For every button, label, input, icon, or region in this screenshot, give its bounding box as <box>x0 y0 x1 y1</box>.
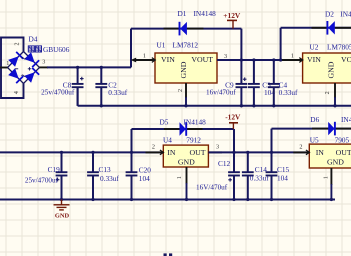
capacitor C15 <box>266 152 278 199</box>
label C15 <box>277 165 290 174</box>
svg-text:104: 104 <box>139 174 150 183</box>
svg-text:U5: U5 <box>310 135 319 144</box>
power +12V symbol <box>227 20 237 28</box>
diode D6 pins <box>312 128 351 130</box>
svg-text:LM7805: LM7805 <box>327 42 351 51</box>
junction U1 VIN tap <box>0 0 1 1</box>
svg-text:2: 2 <box>299 144 302 151</box>
regulator U4 7912 body <box>163 145 208 167</box>
U4 pin 2 number <box>152 144 155 151</box>
wire top-section ground rail <box>78 87 351 106</box>
label D4 <box>29 35 38 44</box>
pin number 2 of bridge <box>13 42 20 45</box>
bridge AC mark top <box>22 58 26 59</box>
capacitor C14 <box>242 152 254 199</box>
U4 pin 3 number <box>216 144 219 151</box>
wire ground rail <box>0 199 335 201</box>
junction ground rail C19 <box>60 198 63 201</box>
U2 GND pin name <box>327 61 336 78</box>
label C3 <box>262 81 271 90</box>
diode D4b (top-right edge of bridge) <box>24 52 39 67</box>
label U2 <box>310 42 319 51</box>
value 0.33uf for C4 <box>279 88 298 97</box>
svg-text:3: 3 <box>42 59 45 66</box>
svg-text:LM7812: LM7812 <box>173 41 199 50</box>
junction ground rail U4 GND <box>185 198 188 201</box>
svg-text:C12: C12 <box>218 159 231 168</box>
svg-text:GND: GND <box>178 158 195 167</box>
diode D1 pins <box>164 28 204 30</box>
junction bottom rail C4 <box>272 104 275 107</box>
junction ground rail C20 <box>130 198 133 201</box>
wire bridge output rail <box>40 66 132 68</box>
value 104 for C20 <box>139 174 150 183</box>
svg-text:3: 3 <box>216 144 219 151</box>
svg-text:2: 2 <box>324 91 331 94</box>
diode D2 <box>327 21 334 35</box>
U5 pin 1 wire <box>330 168 332 200</box>
svg-text:0.33uf: 0.33uf <box>279 88 298 97</box>
junction bottom rail U1 GND <box>184 104 187 107</box>
wire riser to D6 rail <box>271 129 273 153</box>
svg-text:-12V: -12V <box>225 112 241 121</box>
U4 OUT pin name <box>189 148 205 157</box>
junction bottom rail C9 <box>240 104 243 107</box>
svg-text:OUT: OUT <box>336 148 351 157</box>
label U4 <box>163 136 172 145</box>
pin number 3 of bridge <box>42 59 45 66</box>
label 7912 <box>186 136 201 145</box>
svg-text:GND: GND <box>327 61 336 78</box>
svg-text:16V/470uf: 16V/470uf <box>196 183 228 191</box>
U5 pin 2 number <box>299 144 302 151</box>
capacitor C20 <box>126 152 138 199</box>
svg-text:3: 3 <box>224 53 227 60</box>
junction C13 top <box>91 151 94 154</box>
wire D5 rail <box>132 128 235 130</box>
wire bridge pin1 stub <box>0 67 8 69</box>
svg-text:1: 1 <box>143 53 146 60</box>
label C9 <box>225 81 234 90</box>
svg-text:4: 4 <box>13 91 20 94</box>
svg-text:16v/470uf: 16v/470uf <box>206 89 236 97</box>
svg-text:IN: IN <box>167 148 176 157</box>
junction C2 top <box>100 66 103 69</box>
svg-text:25v/4700uf: 25v/4700uf <box>41 89 75 97</box>
value 25v/4700uf for C8 <box>41 89 75 97</box>
svg-text:7905: 7905 <box>335 135 350 144</box>
svg-text:OUT: OUT <box>189 148 205 157</box>
label U5 <box>310 135 319 144</box>
U2 pin 1 wire <box>282 58 303 63</box>
diode D2 pins <box>312 27 351 29</box>
junction C8 top <box>76 66 79 69</box>
U1 VOUT pin name <box>191 55 213 64</box>
net label GND <box>55 212 70 219</box>
diode D5 pins <box>164 128 203 130</box>
label IN4148 for D6 <box>341 115 351 124</box>
diode D4d (bottom-right edge of bridge) <box>24 68 39 83</box>
U4 pin 2 wire <box>146 150 164 155</box>
svg-text:U4: U4 <box>163 136 172 145</box>
label U1 <box>157 41 166 50</box>
svg-text:IN4148: IN4148 <box>194 9 217 18</box>
diode D1 <box>180 22 187 36</box>
power -12V symbol <box>229 123 238 129</box>
label C4 <box>279 81 288 90</box>
pin number 1 of bridge <box>6 60 9 67</box>
junction VOUT rail at C9 <box>240 58 243 61</box>
junction C4 top <box>272 58 275 61</box>
junction C15 top <box>270 151 273 154</box>
label C2 <box>108 81 117 90</box>
svg-text:D2: D2 <box>325 9 334 18</box>
junction ground rail C12 <box>232 198 235 201</box>
bridge rectifier D4 diamond outline <box>8 52 40 84</box>
svg-text:GND: GND <box>179 61 188 78</box>
label C20 <box>139 166 152 175</box>
svg-text:VOUT: VOUT <box>341 55 351 64</box>
capacitor C13 <box>87 152 99 199</box>
U1 pin 3 number <box>224 53 227 60</box>
net label -12V <box>225 112 241 121</box>
junction ground rail C14 <box>246 198 249 201</box>
value 0.33uf for C14 <box>250 174 269 183</box>
net label +12V <box>223 11 241 20</box>
svg-text:D4: D4 <box>29 35 38 44</box>
U2 pin 1 number <box>291 53 294 60</box>
junction C3 top <box>252 58 255 61</box>
label LM7805 <box>327 42 351 51</box>
capacitor C3 <box>248 60 260 106</box>
svg-text:+12V: +12V <box>223 11 241 20</box>
svg-text:U2: U2 <box>310 42 319 51</box>
label GBU606 <box>43 45 70 54</box>
svg-text:GND: GND <box>55 212 70 219</box>
label D1 <box>178 9 187 18</box>
svg-text:IN4148: IN4148 <box>184 118 207 127</box>
label D5 <box>160 118 169 127</box>
diode D4c (left-bottom edge of bridge) <box>8 68 23 83</box>
junction C14 top <box>246 151 249 154</box>
svg-text:0.33uf: 0.33uf <box>108 88 127 97</box>
wire bridge pin2 to left edge loop <box>1 38 24 99</box>
label C8 <box>63 81 72 90</box>
wire riser bridge rail to top rail <box>130 29 132 68</box>
svg-text:IN: IN <box>316 148 325 157</box>
wire negative out rail <box>208 151 309 153</box>
svg-text:VIN: VIN <box>161 55 175 64</box>
svg-text:U1: U1 <box>157 41 166 50</box>
regulator U2 LM7805 body <box>303 53 351 83</box>
value 0.33uf for C2 <box>108 88 127 97</box>
svg-text:7912: 7912 <box>186 136 201 145</box>
capacitor C4 <box>268 60 280 106</box>
capacitor C2 <box>95 67 107 105</box>
svg-text:2: 2 <box>13 42 20 45</box>
junction riser C20 <box>130 151 133 154</box>
svg-text:1: 1 <box>6 60 9 67</box>
U1 GND pin name <box>179 61 188 78</box>
U2 pin 2 wire <box>334 83 336 106</box>
value 0.33uf for C13 <box>100 174 119 183</box>
label D2 <box>325 9 334 18</box>
clipped text at bottom edge <box>164 253 173 256</box>
capacitor C8 <box>72 67 84 105</box>
svg-text:VIN: VIN <box>307 55 321 64</box>
label 7905 <box>335 135 350 144</box>
svg-text:D1: D1 <box>178 9 187 18</box>
value 16V/470uf for C12 <box>196 183 228 191</box>
wire riser to D2 rail <box>280 28 282 60</box>
label C13 <box>99 165 112 174</box>
value 16v/470uf for C9 <box>206 89 236 97</box>
U1 pin 1 number <box>143 53 146 60</box>
diode D5 <box>180 122 187 136</box>
capacitor C19 <box>56 152 68 199</box>
value 104 for C15 <box>277 174 288 183</box>
U1 pin 1 wire <box>131 58 156 63</box>
label IN4148 for D1 <box>194 9 217 18</box>
wire riser to D5 rail <box>131 129 133 152</box>
label D6 <box>310 115 319 124</box>
svg-text:GND: GND <box>327 157 344 166</box>
wire D2 rail <box>281 27 351 29</box>
wire top +12V rail <box>131 28 241 30</box>
svg-text:25v/4700uf: 25v/4700uf <box>25 176 59 184</box>
bridge minus mark left <box>15 68 18 70</box>
regulator U1 LM7812 body <box>155 53 217 83</box>
junction ground rail U5 GND <box>330 198 333 201</box>
label C12 <box>218 159 231 168</box>
U4 pin 1 wire <box>186 167 188 200</box>
svg-text:104: 104 <box>277 174 288 183</box>
U5 IN pin name <box>316 148 325 157</box>
junction C19 top <box>60 151 63 154</box>
junction ground rail C15 <box>270 198 273 201</box>
svg-text:D6: D6 <box>310 115 319 124</box>
value 104 for C3 <box>264 88 275 97</box>
U4 GND pin name <box>178 158 195 167</box>
capacitor C9 <box>236 60 248 106</box>
U2 VIN pin name <box>307 55 321 64</box>
svg-text:IN4148: IN4148 <box>341 115 351 124</box>
junction D2 riser <box>279 58 282 61</box>
diode D4a (left-top edge of bridge) <box>8 52 23 67</box>
bridge plus mark right <box>28 67 31 70</box>
U5 pin 2 wire <box>293 150 309 155</box>
U4 pin 3 wire <box>208 151 222 153</box>
wire drop top rail to VOUT rail <box>240 29 242 60</box>
U4 IN pin name <box>167 148 176 157</box>
svg-text:1: 1 <box>322 176 329 179</box>
U1 pin 2 number <box>177 89 184 92</box>
U5 OUT pin name <box>336 148 351 157</box>
junction bottom rail C3 <box>252 104 255 107</box>
U2 VOUT pin name <box>341 55 351 64</box>
svg-text:GBU606: GBU606 <box>43 45 70 54</box>
bridge AC mark bottom <box>22 75 26 76</box>
wire VOUT rail <box>217 59 303 61</box>
label IN4148 for D2 <box>340 9 351 18</box>
U1 pin 3 wire <box>217 59 233 61</box>
svg-text:VOUT: VOUT <box>191 55 213 64</box>
svg-text:1: 1 <box>291 53 294 60</box>
junction bottom rail U2 GND <box>333 104 336 107</box>
junction ground rail C13 <box>91 198 94 201</box>
value 25v/4700uf for C19 <box>25 176 59 184</box>
capacitor C12 <box>228 152 240 199</box>
regulator U5 7905 body <box>309 144 351 168</box>
svg-text:C13: C13 <box>99 165 112 174</box>
wire negative input rail <box>0 151 163 153</box>
svg-text:C19: C19 <box>48 165 61 174</box>
junction bottom rail C2 <box>100 104 103 107</box>
label C14 <box>255 165 268 174</box>
label LM7812 <box>173 41 199 50</box>
U5 GND pin name <box>327 157 344 166</box>
label qiao dui (Chinese) for D4 <box>28 46 41 52</box>
wire D6 rail <box>272 128 351 130</box>
junction C12 top <box>232 151 235 154</box>
U5 pin 1 number <box>322 176 329 179</box>
label IN4148 for D5 <box>184 118 207 127</box>
svg-text:2: 2 <box>152 144 155 151</box>
svg-text:IN4148: IN4148 <box>340 9 351 18</box>
ground symbol <box>54 200 70 210</box>
U2 pin 2 number <box>324 91 331 94</box>
label C19 <box>48 165 61 174</box>
U4 pin 1 number <box>176 176 183 179</box>
diode D6 <box>328 122 335 136</box>
svg-text:1: 1 <box>176 176 183 179</box>
wire drop D5 rail to out rail <box>233 129 235 152</box>
pin number 4 of bridge <box>13 91 20 94</box>
U1 VIN pin name <box>161 55 175 64</box>
svg-text:D5: D5 <box>160 118 169 127</box>
svg-text:0.33uf: 0.33uf <box>100 174 119 183</box>
svg-text:2: 2 <box>177 89 184 92</box>
U1 pin 2 wire <box>185 83 187 106</box>
